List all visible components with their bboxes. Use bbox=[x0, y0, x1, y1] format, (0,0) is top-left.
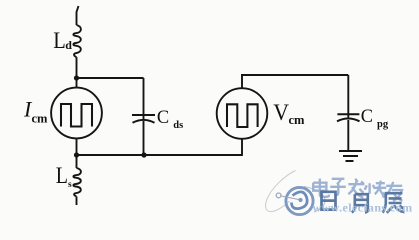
svg-text:www.elecfans.com: www.elecfans.com bbox=[313, 201, 413, 215]
svg-text:ds: ds bbox=[173, 120, 183, 131]
watermark char you bbox=[385, 182, 402, 201]
current source Icm circle bbox=[51, 88, 102, 139]
wire: Cpg top vertical bbox=[347, 75, 349, 118]
svg-text:L: L bbox=[56, 163, 68, 188]
watermark overlay char chen bbox=[383, 193, 405, 213]
capacitor Cds top plate bbox=[132, 114, 155, 116]
capacitor Cpg top plate bbox=[337, 113, 359, 115]
node B junction dot bbox=[74, 152, 79, 157]
watermark e-swirl bbox=[292, 192, 308, 209]
watermark orbit ellipse bbox=[266, 171, 296, 212]
wire: Ls bottom lead bbox=[76, 197, 78, 206]
watermark center dot bbox=[298, 198, 302, 202]
svg-text:pg: pg bbox=[377, 119, 389, 130]
watermark overlay char yue bbox=[352, 194, 368, 212]
capacitor Cds curved plate bbox=[133, 120, 155, 123]
watermark orbit right arc bbox=[304, 187, 325, 213]
wire: node A to Cds top bbox=[76, 77, 144, 79]
watermark char dian bbox=[313, 179, 329, 197]
watermark logo circle bbox=[286, 187, 313, 214]
svg-text:C: C bbox=[361, 106, 373, 127]
watermark char shao bbox=[365, 181, 387, 198]
wire: Ld to node A bbox=[76, 57, 78, 87]
ground bbox=[339, 151, 362, 161]
wire: node B to Ls bbox=[76, 155, 78, 168]
wire: Cds bottom vertical bbox=[143, 121, 145, 155]
Vcm pulse waveform bbox=[227, 104, 258, 127]
Icm pulse waveform bbox=[61, 104, 92, 127]
wire: Cds top vertical bbox=[143, 78, 145, 119]
node A junction dot bbox=[74, 75, 79, 80]
watermark orbit node line bbox=[281, 196, 299, 200]
capacitor Cpg curved plate bbox=[337, 119, 360, 122]
svg-text:C: C bbox=[157, 107, 169, 128]
node C junction dot bbox=[141, 152, 146, 157]
wire: Cpg to ground bbox=[347, 120, 349, 151]
watermark char fa bbox=[348, 179, 364, 198]
inductor Ls bbox=[73, 168, 81, 197]
svg-text:s: s bbox=[68, 180, 72, 190]
svg-text:V: V bbox=[273, 100, 289, 125]
inductor Ld bbox=[73, 25, 81, 57]
svg-text:cm: cm bbox=[289, 113, 306, 127]
wire: bottom rail bbox=[77, 154, 243, 156]
svg-text:L: L bbox=[53, 28, 65, 54]
svg-text:cm: cm bbox=[32, 112, 49, 126]
voltage source Vcm circle bbox=[217, 88, 268, 139]
wire: Icm bottom to node B bbox=[76, 138, 78, 156]
wire: Vcm top vertical bbox=[241, 75, 243, 88]
wire: Vcm bottom to bottom rail bbox=[241, 139, 243, 156]
wire: top rail to Cpg bbox=[241, 74, 348, 76]
watermark char zi bbox=[330, 179, 346, 195]
svg-text:d: d bbox=[65, 38, 72, 52]
wire: top lead of Ld bbox=[77, 6, 79, 25]
watermark overlay char ri bbox=[322, 192, 336, 210]
watermark orbit node circle bbox=[276, 193, 281, 198]
